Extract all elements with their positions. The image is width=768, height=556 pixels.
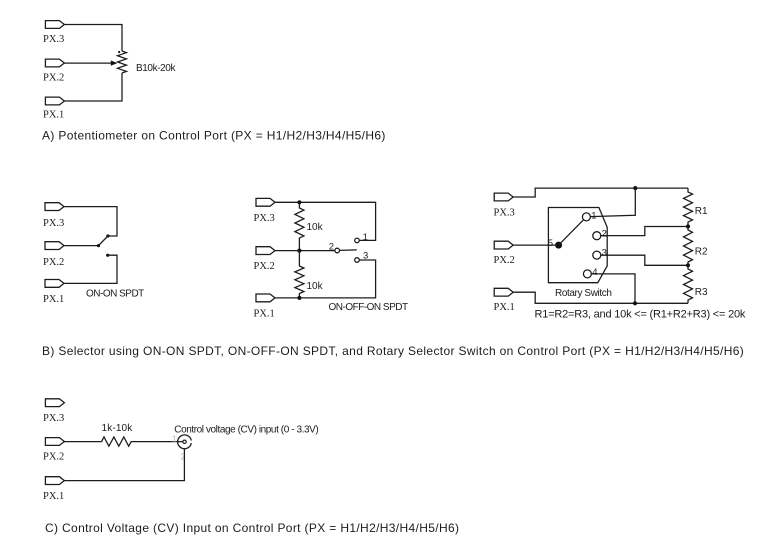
svg-text:10k: 10k bbox=[307, 222, 324, 233]
wire CV jack sleeve to PX.1 bbox=[64, 449, 184, 481]
connector B2 PX.1 bbox=[256, 294, 275, 302]
svg-text:B10k-20k: B10k-20k bbox=[136, 63, 176, 74]
wire B1 PX.3 to upper throw bbox=[64, 207, 117, 236]
connector A PX.3 bbox=[45, 21, 64, 29]
svg-text:PX.2: PX.2 bbox=[43, 73, 64, 84]
connector B3 PX.3 bbox=[494, 193, 513, 201]
throw contact circle 1 bbox=[582, 213, 590, 221]
svg-text:PX.1: PX.1 bbox=[254, 309, 275, 320]
svg-text:2: 2 bbox=[329, 241, 334, 252]
connector A PX.2 bbox=[45, 59, 64, 67]
CV jack outer ring bbox=[178, 435, 192, 449]
wire A PX.2 to wiper bbox=[64, 62, 111, 64]
resistor R3 bbox=[684, 265, 693, 303]
upper throw contact bbox=[106, 234, 109, 237]
connector C PX.3 bbox=[45, 399, 64, 407]
svg-text:ON-OFF-ON SPDT: ON-OFF-ON SPDT bbox=[329, 302, 408, 313]
wire throw 3 to R2/R3 junction bbox=[601, 255, 688, 265]
potentiometer B10k-20k bbox=[118, 51, 127, 73]
wiper arrowhead bbox=[111, 60, 118, 65]
connector B2 PX.2 bbox=[256, 247, 275, 255]
svg-text:B) Selector using ON-ON SPDT,: B) Selector using ON-ON SPDT, ON-OFF-ON … bbox=[42, 344, 744, 358]
resistor 10k lower bbox=[295, 251, 304, 298]
svg-text:2: 2 bbox=[602, 228, 607, 239]
rotary pole 5 bbox=[555, 242, 562, 249]
svg-text:PX.2: PX.2 bbox=[43, 257, 64, 268]
connector B1 PX.3 bbox=[45, 203, 64, 211]
node bottom junction bbox=[633, 301, 637, 305]
svg-text:R1=R2=R3, and 10k <= (R1+R2+R3: R1=R2=R3, and 10k <= (R1+R2+R3) <= 20k bbox=[535, 308, 746, 320]
wire throw 4 to bottom wire bbox=[592, 274, 636, 303]
rotary lever bbox=[559, 220, 584, 245]
svg-text:PX.3: PX.3 bbox=[43, 218, 64, 229]
connector A PX.1 bbox=[45, 97, 64, 105]
wire throw 2 to R1/R2 junction bbox=[601, 227, 688, 236]
resistor R1 bbox=[684, 188, 693, 226]
svg-text:10k: 10k bbox=[307, 281, 324, 292]
resistor R2 bbox=[684, 227, 693, 266]
node R1/R2 junction bbox=[686, 224, 690, 228]
switch lever SW2 bbox=[340, 249, 357, 252]
svg-text:4: 4 bbox=[592, 267, 597, 278]
lower throw contact bbox=[106, 254, 109, 257]
svg-text:PX.3: PX.3 bbox=[494, 208, 515, 219]
svg-text:1: 1 bbox=[591, 210, 596, 221]
svg-text:PX.2: PX.2 bbox=[254, 261, 275, 272]
svg-text:C) Control Voltage (CV) Input: C) Control Voltage (CV) Input on Control… bbox=[45, 521, 459, 535]
svg-text:Rotary Switch: Rotary Switch bbox=[555, 288, 612, 299]
svg-text:3: 3 bbox=[602, 248, 607, 259]
svg-text:PX.2: PX.2 bbox=[494, 255, 515, 266]
svg-text:Control voltage (CV) input (0: Control voltage (CV) input (0 - 3.3V) bbox=[174, 425, 318, 436]
svg-text:PX.3: PX.3 bbox=[43, 413, 64, 424]
svg-text:1k-10k: 1k-10k bbox=[102, 423, 134, 434]
node top junction bbox=[633, 186, 637, 190]
svg-text:PX.3: PX.3 bbox=[254, 213, 275, 224]
wire B1 PX.2 to pole bbox=[64, 245, 99, 247]
potentiometer top marker dot bbox=[118, 51, 120, 53]
rotary switch body bbox=[548, 208, 607, 283]
node B2 mid junction bbox=[297, 249, 301, 253]
resistor 10k upper bbox=[295, 202, 304, 250]
connector B1 PX.2 bbox=[45, 242, 64, 250]
throw contact circle 3 bbox=[355, 258, 360, 263]
connector B3 PX.2 bbox=[494, 241, 513, 249]
node B2 bottom junction bbox=[297, 296, 301, 300]
wire B2 PX.1 to throw 3 bbox=[275, 260, 376, 298]
wire B3 PX.3 to R1 top bbox=[513, 188, 688, 197]
svg-text:PX.1: PX.1 bbox=[43, 294, 64, 305]
svg-text:PX.1: PX.1 bbox=[43, 109, 64, 120]
connector B1 PX.1 bbox=[45, 280, 64, 288]
resistor 1k-10k with wires bbox=[64, 437, 182, 446]
pole contact circle 2 bbox=[335, 248, 340, 253]
wire B1 PX.1 to lower throw bbox=[64, 255, 117, 283]
svg-text:5: 5 bbox=[548, 238, 553, 249]
svg-text:PX.1: PX.1 bbox=[494, 302, 515, 313]
node B2 top junction bbox=[297, 200, 301, 204]
connector B2 PX.3 bbox=[256, 198, 275, 206]
wire A PX.1 to potentiometer bottom bbox=[64, 73, 122, 101]
svg-text:R2: R2 bbox=[695, 247, 708, 258]
svg-text:R3: R3 bbox=[695, 287, 708, 298]
pole contact bbox=[97, 244, 100, 247]
connector C PX.1 bbox=[45, 477, 64, 485]
wire B2 PX.2 to pole 2 bbox=[275, 250, 335, 252]
throw contact circle 2 bbox=[593, 232, 601, 240]
throw contact circle 1 bbox=[355, 238, 360, 243]
wire A PX.3 to potentiometer top bbox=[64, 25, 122, 52]
CV jack tip contact bbox=[183, 440, 186, 443]
svg-text:PX.2: PX.2 bbox=[43, 452, 64, 463]
throw contact circle 4 bbox=[583, 270, 591, 278]
connector C PX.2 bbox=[45, 438, 64, 446]
svg-text:R1: R1 bbox=[695, 206, 708, 217]
wire top junction down to throw 1 bbox=[590, 188, 635, 217]
throw contact circle 3 bbox=[593, 251, 601, 259]
connector B3 PX.1 bbox=[494, 288, 513, 296]
svg-text:PX.1: PX.1 bbox=[43, 491, 64, 502]
svg-text:PX.3: PX.3 bbox=[43, 34, 64, 45]
wire B2 PX.3 to throw 1 bbox=[275, 202, 376, 240]
wire B3 PX.2 to pole bbox=[513, 244, 557, 246]
node R2/R3 junction bbox=[686, 263, 690, 267]
svg-text:1: 1 bbox=[363, 232, 368, 243]
svg-text:A) Potentiometer on Control Po: A) Potentiometer on Control Port (PX = H… bbox=[42, 128, 386, 142]
wire B3 PX.1 to bottom rail bbox=[513, 292, 688, 303]
svg-text:ON-ON SPDT: ON-ON SPDT bbox=[86, 288, 144, 299]
switch lever SW1 bbox=[99, 236, 108, 246]
